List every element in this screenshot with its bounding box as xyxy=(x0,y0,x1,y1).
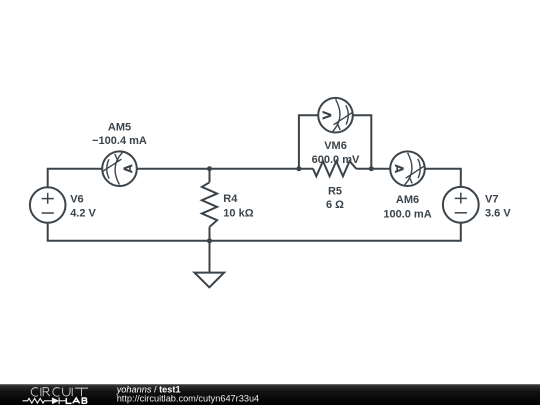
svg-text:V7: V7 xyxy=(485,193,498,205)
svg-text:AM5: AM5 xyxy=(108,122,131,134)
svg-text:100.0 mA: 100.0 mA xyxy=(383,208,431,220)
svg-text:AM6: AM6 xyxy=(396,194,419,206)
svg-text:V6: V6 xyxy=(70,194,83,206)
svg-text:http://circuitlab.com/cutyn647: http://circuitlab.com/cutyn647r33u4 xyxy=(117,394,259,404)
svg-text:10 kΩ: 10 kΩ xyxy=(223,207,253,219)
svg-text:6 Ω: 6 Ω xyxy=(326,199,344,211)
svg-text:4.2 V: 4.2 V xyxy=(70,208,96,220)
svg-text:3.6 V: 3.6 V xyxy=(485,207,511,219)
svg-text:R4: R4 xyxy=(223,193,238,205)
svg-text:−100.4 mA: −100.4 mA xyxy=(92,135,147,147)
svg-text:600.0 mV: 600.0 mV xyxy=(312,154,360,166)
svg-text:VM6: VM6 xyxy=(324,140,347,152)
svg-text:R5: R5 xyxy=(328,185,342,197)
